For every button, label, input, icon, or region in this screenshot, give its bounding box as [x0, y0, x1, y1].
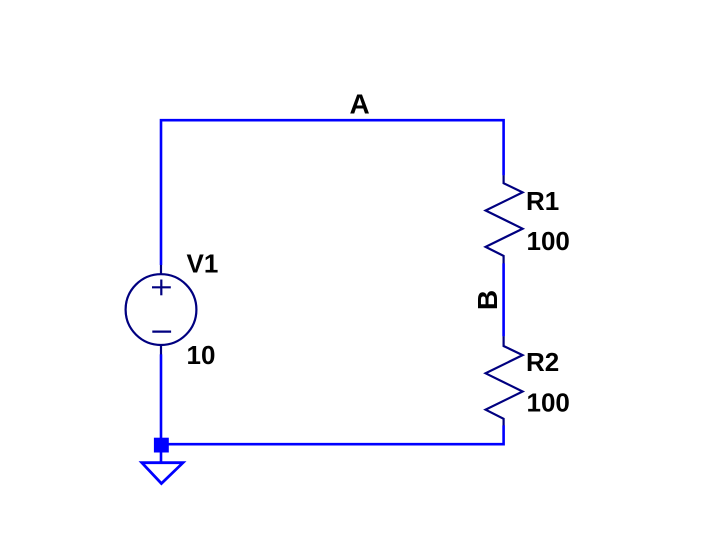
wire: bottom return (R2 bottom to junction)	[161, 425, 504, 444]
svg-text:R1: R1	[526, 186, 559, 216]
voltage source V1	[126, 265, 197, 355]
wire: node B between R1 and R2	[502, 263, 505, 336]
svg-text:100: 100	[527, 226, 570, 256]
junction node (filled square)	[154, 438, 169, 453]
svg-text:10: 10	[187, 340, 216, 370]
svg-text:B: B	[472, 290, 503, 310]
wire: V1 minus to ground junction	[160, 354, 163, 445]
svg-text:100: 100	[527, 388, 570, 418]
svg-text:R2: R2	[526, 347, 559, 377]
resistor R1	[486, 175, 523, 263]
wire: node A top loop (left vertical + top horizontal + right vertical)	[161, 120, 504, 265]
svg-text:V1: V1	[187, 248, 219, 278]
resistor R2	[486, 336, 523, 425]
wire: junction to ground stub	[160, 452, 163, 463]
ground symbol	[142, 463, 183, 484]
svg-text:A: A	[350, 89, 370, 120]
